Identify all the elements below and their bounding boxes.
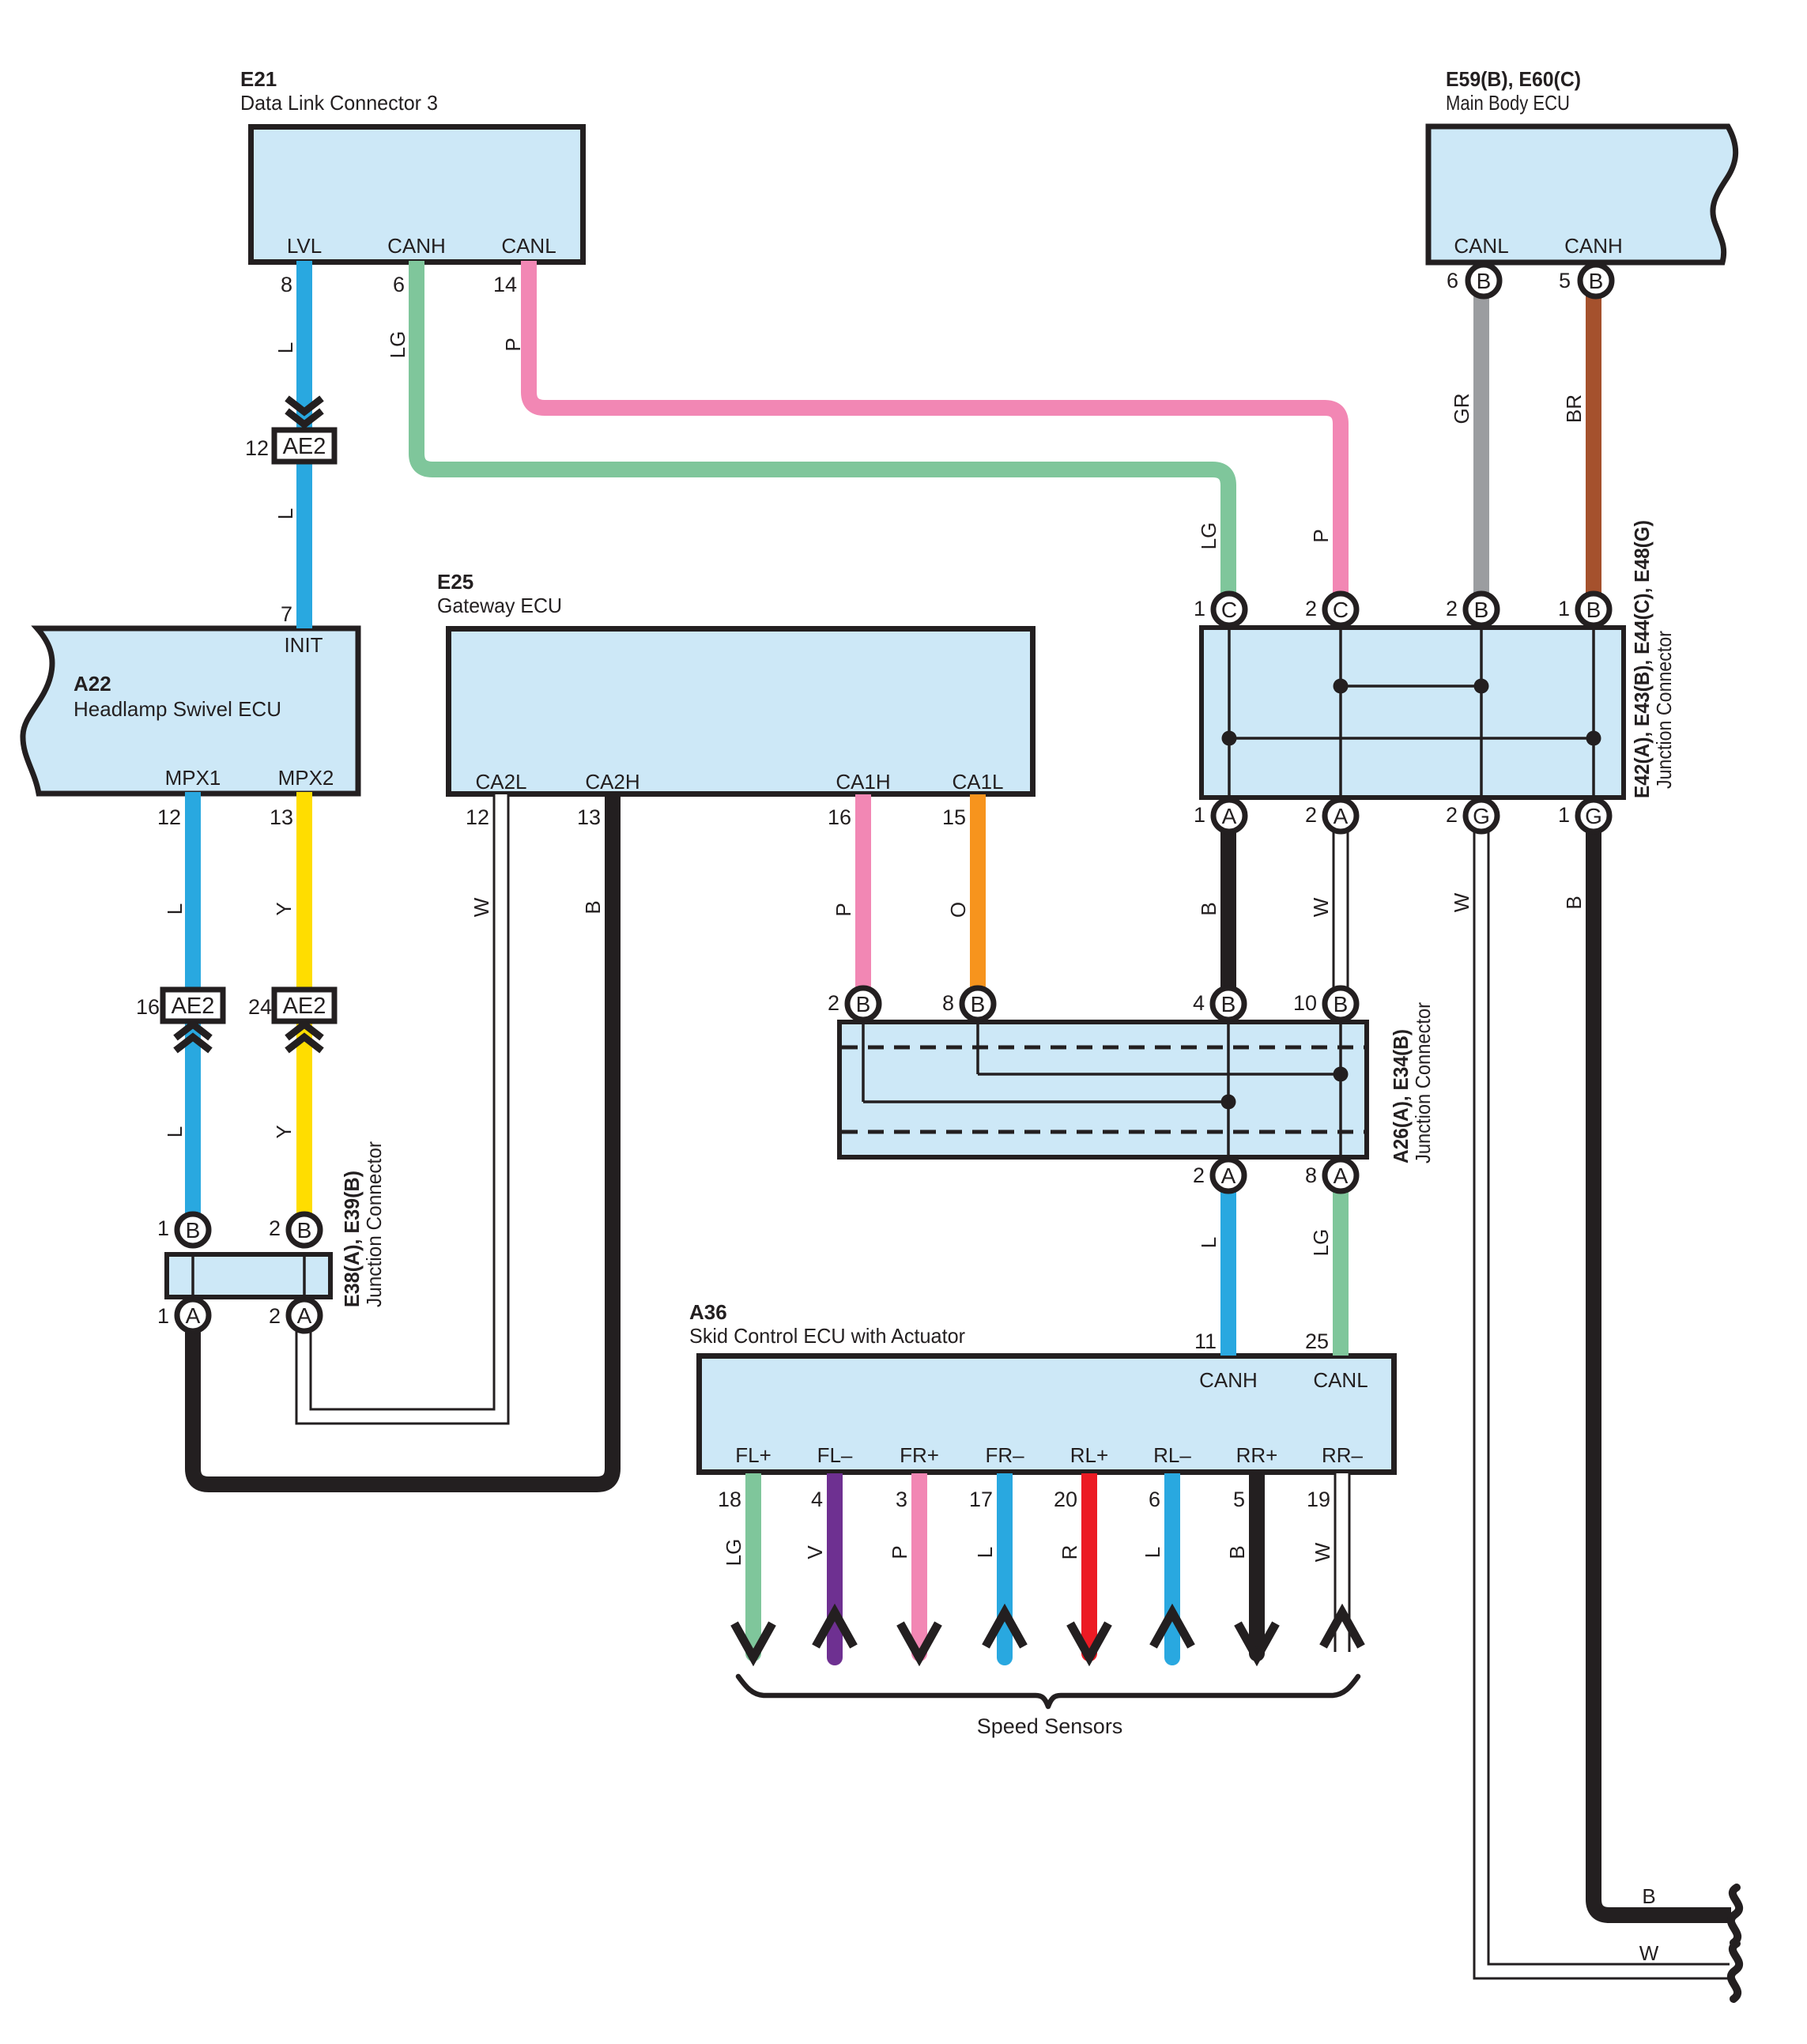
svg-text:CANH: CANH: [1199, 1368, 1258, 1392]
svg-text:B: B: [1474, 598, 1489, 622]
svg-text:A: A: [1221, 1163, 1236, 1188]
svg-text:2: 2: [1193, 1163, 1205, 1187]
svg-text:FR+: FR+: [900, 1443, 939, 1467]
svg-text:1: 1: [1194, 803, 1205, 827]
svg-text:13: 13: [270, 805, 293, 829]
svg-text:18: 18: [718, 1488, 741, 1511]
svg-text:B: B: [1197, 902, 1220, 915]
svg-text:A: A: [297, 1303, 312, 1328]
svg-text:B: B: [1225, 1545, 1249, 1559]
svg-text:L: L: [163, 903, 187, 915]
svg-text:B: B: [1477, 269, 1492, 293]
svg-text:Data Link Connector 3: Data Link Connector 3: [240, 91, 438, 115]
svg-text:E59(B), E60(C): E59(B), E60(C): [1446, 67, 1581, 91]
svg-text:20: 20: [1054, 1488, 1077, 1511]
svg-text:19: 19: [1307, 1488, 1330, 1511]
svg-text:E21: E21: [240, 67, 277, 91]
svg-text:1: 1: [1558, 803, 1570, 827]
svg-text:10: 10: [1293, 991, 1317, 1015]
svg-text:A36: A36: [689, 1300, 727, 1324]
svg-text:B: B: [971, 992, 986, 1016]
svg-text:16: 16: [136, 995, 160, 1019]
svg-text:P: P: [501, 338, 525, 351]
svg-text:1: 1: [157, 1216, 169, 1240]
svg-text:B: B: [856, 992, 871, 1016]
svg-text:4: 4: [1193, 991, 1205, 1015]
svg-text:CANL: CANL: [1454, 234, 1508, 258]
svg-text:C: C: [1221, 598, 1237, 622]
svg-text:12: 12: [157, 805, 181, 829]
svg-text:Main Body ECU: Main Body ECU: [1446, 91, 1570, 115]
svg-text:7: 7: [281, 602, 292, 626]
svg-text:12: 12: [245, 436, 269, 460]
svg-text:CANH: CANH: [1564, 234, 1623, 258]
svg-text:LG: LG: [722, 1539, 745, 1567]
svg-text:FL+: FL+: [735, 1443, 771, 1467]
svg-text:8: 8: [942, 991, 954, 1015]
svg-text:12: 12: [466, 805, 489, 829]
svg-text:RL–: RL–: [1153, 1443, 1191, 1467]
svg-text:L: L: [274, 508, 297, 519]
svg-text:LVL: LVL: [287, 234, 322, 258]
svg-text:5: 5: [1559, 269, 1571, 292]
svg-text:13: 13: [577, 805, 601, 829]
svg-text:W: W: [1309, 897, 1333, 917]
svg-text:1: 1: [1194, 597, 1205, 620]
svg-text:RR–: RR–: [1322, 1443, 1364, 1467]
svg-text:GR: GR: [1450, 394, 1473, 424]
svg-text:FR–: FR–: [985, 1443, 1024, 1467]
svg-text:Headlamp Swivel ECU: Headlamp Swivel ECU: [74, 697, 281, 721]
svg-text:V: V: [803, 1545, 827, 1559]
svg-text:CA1H: CA1H: [836, 770, 890, 794]
svg-text:E42(A), E43(B), E44(C), E48(G): E42(A), E43(B), E44(C), E48(G): [1630, 520, 1654, 798]
svg-text:Gateway ECU: Gateway ECU: [437, 594, 562, 617]
svg-text:8: 8: [1305, 1163, 1317, 1187]
svg-text:Skid Control ECU with Actuator: Skid Control ECU with Actuator: [689, 1324, 965, 1348]
svg-text:2: 2: [1446, 597, 1458, 620]
svg-text:AE2: AE2: [283, 434, 326, 459]
svg-text:B: B: [1334, 992, 1349, 1016]
svg-text:B: B: [297, 1218, 312, 1243]
svg-text:P: P: [1309, 529, 1333, 542]
svg-text:O: O: [946, 902, 970, 918]
svg-text:Junction Connector: Junction Connector: [362, 1141, 386, 1307]
svg-text:A: A: [186, 1303, 201, 1328]
svg-text:A: A: [1334, 1163, 1349, 1188]
svg-text:RR+: RR+: [1236, 1443, 1278, 1467]
svg-text:P: P: [832, 903, 855, 916]
svg-text:24: 24: [248, 995, 272, 1019]
svg-text:L: L: [1141, 1547, 1164, 1558]
svg-text:Y: Y: [272, 902, 296, 915]
svg-text:15: 15: [942, 805, 966, 829]
svg-text:R: R: [1058, 1545, 1081, 1560]
svg-text:16: 16: [828, 805, 851, 829]
svg-text:25: 25: [1305, 1329, 1329, 1353]
svg-text:G: G: [1473, 804, 1490, 828]
svg-text:CA2H: CA2H: [585, 770, 639, 794]
svg-text:L: L: [1197, 1237, 1220, 1248]
svg-text:A22: A22: [74, 672, 111, 696]
svg-text:CANL: CANL: [501, 234, 556, 258]
svg-text:MPX1: MPX1: [165, 766, 221, 790]
svg-text:AE2: AE2: [172, 994, 215, 1019]
svg-text:L: L: [274, 342, 297, 353]
svg-text:6: 6: [393, 273, 405, 296]
svg-text:A: A: [1334, 804, 1349, 828]
svg-text:E25: E25: [437, 570, 473, 594]
svg-text:A26(A), E34(B): A26(A), E34(B): [1389, 1029, 1413, 1163]
svg-text:B: B: [1562, 896, 1586, 909]
svg-text:6: 6: [1149, 1488, 1160, 1511]
svg-text:W: W: [1450, 892, 1473, 912]
svg-text:2: 2: [269, 1304, 281, 1328]
svg-text:BR: BR: [1562, 394, 1586, 423]
svg-text:LG: LG: [1197, 522, 1220, 550]
svg-text:1: 1: [1558, 597, 1570, 620]
svg-text:Junction Connector: Junction Connector: [1411, 1002, 1435, 1163]
svg-text:2: 2: [1305, 803, 1317, 827]
svg-text:Junction Connector: Junction Connector: [1652, 631, 1676, 789]
svg-text:AE2: AE2: [283, 994, 326, 1019]
svg-text:P: P: [888, 1545, 911, 1559]
svg-text:11: 11: [1194, 1329, 1217, 1353]
svg-text:2: 2: [828, 991, 839, 1015]
svg-text:Y: Y: [272, 1125, 296, 1138]
svg-text:L: L: [163, 1126, 187, 1137]
svg-text:B: B: [1642, 1884, 1655, 1908]
svg-text:2: 2: [1305, 597, 1317, 620]
svg-text:E38(A), E39(B): E38(A), E39(B): [340, 1171, 364, 1307]
svg-text:INIT: INIT: [284, 633, 323, 657]
svg-text:6: 6: [1447, 269, 1458, 292]
svg-text:17: 17: [969, 1488, 993, 1511]
svg-text:Speed Sensors: Speed Sensors: [977, 1714, 1123, 1738]
svg-text:3: 3: [896, 1488, 907, 1511]
svg-text:B: B: [1221, 992, 1236, 1016]
svg-text:B: B: [1589, 269, 1604, 293]
svg-text:LG: LG: [1309, 1229, 1333, 1257]
svg-text:LG: LG: [386, 331, 409, 359]
svg-text:RL+: RL+: [1070, 1443, 1108, 1467]
svg-text:W: W: [470, 897, 493, 917]
svg-text:2: 2: [1446, 803, 1458, 827]
svg-text:4: 4: [811, 1488, 823, 1511]
svg-text:B: B: [186, 1218, 201, 1243]
svg-text:B: B: [581, 900, 605, 914]
svg-text:CA2L: CA2L: [475, 770, 526, 794]
svg-text:G: G: [1585, 804, 1602, 828]
svg-text:CANH: CANH: [387, 234, 446, 258]
svg-text:2: 2: [269, 1216, 281, 1240]
svg-text:14: 14: [493, 273, 517, 296]
svg-text:MPX2: MPX2: [278, 766, 334, 790]
svg-text:B: B: [1586, 598, 1601, 622]
svg-text:A: A: [1222, 804, 1237, 828]
svg-text:C: C: [1333, 598, 1349, 622]
svg-text:5: 5: [1233, 1488, 1245, 1511]
svg-text:W: W: [1311, 1542, 1334, 1562]
svg-text:W: W: [1639, 1941, 1659, 1965]
svg-text:CANL: CANL: [1313, 1368, 1368, 1392]
svg-text:FL–: FL–: [817, 1443, 853, 1467]
svg-text:1: 1: [157, 1304, 169, 1328]
svg-text:L: L: [973, 1547, 997, 1558]
svg-text:8: 8: [281, 273, 292, 296]
svg-text:CA1L: CA1L: [952, 770, 1003, 794]
